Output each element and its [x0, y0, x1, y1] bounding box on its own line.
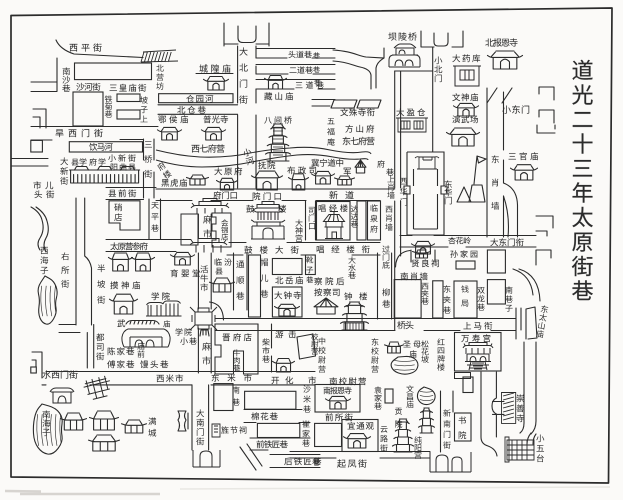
label 靴子巷 [306, 256, 313, 283]
label 旌节祠 [221, 426, 246, 433]
label 新道 [329, 191, 353, 199]
temple nw1 [109, 253, 133, 271]
label 坝陵桥 [388, 32, 416, 40]
street 旱西门街 lines [31, 127, 158, 141]
label 东夹巷 [443, 285, 451, 313]
label 晋府店 [223, 333, 252, 341]
street 北仓巷 lines [158, 105, 238, 115]
label 小东门 [502, 105, 529, 113]
label 大药库 [452, 54, 480, 62]
label 棉花巷 [251, 412, 277, 420]
block west of 饮马河 [31, 140, 43, 152]
building 大盈仓 [396, 118, 428, 132]
label 麻市 lower [202, 342, 211, 364]
box 宜通观 [342, 420, 378, 452]
label 东校尉营 [371, 338, 378, 372]
label 南海子 [42, 410, 50, 436]
label 冀宁道中 [311, 159, 343, 167]
label 活牛市 [200, 265, 208, 291]
label 通顺巷 [236, 261, 244, 300]
label 城隍庙 [199, 64, 230, 72]
label 庙 of 圣母庙 [409, 350, 416, 357]
label 军 [344, 168, 351, 175]
house 贤良祠 [413, 250, 431, 258]
monastery 小五台 cluster [505, 437, 534, 462]
street 桥头 corridor [215, 319, 516, 331]
block 临泉府 [368, 201, 381, 240]
block 坡子上 se [117, 110, 140, 119]
label 南巷子 [505, 286, 513, 311]
block 袁家巷东 [385, 389, 393, 403]
temple 大原府 [217, 178, 238, 190]
label 牛肉巷 [233, 349, 240, 371]
street 前铁匠巷 lines [250, 438, 310, 450]
block slanted east [357, 100, 381, 108]
label 水西门街 [42, 370, 77, 378]
hall 崇善寺 striped [502, 393, 516, 424]
label 袁家巷 [374, 386, 382, 409]
shadow below border [5, 491, 160, 494]
label 北报恩寺 [485, 38, 517, 46]
street 棉花巷 lines [244, 410, 310, 423]
label 大神宫 [295, 219, 302, 242]
street 大东门衔 corridor [400, 236, 536, 248]
block 孙家园 [456, 261, 475, 269]
label 桥头 [397, 321, 413, 329]
street corner sw row3 [32, 352, 42, 378]
gate arch 大南门 south [193, 450, 220, 467]
label 巷 [386, 168, 394, 175]
label 西肖墙 [385, 206, 392, 231]
box 大钟寺 [272, 287, 302, 317]
label 南校尉营 [330, 377, 366, 385]
box 南报恩寺 [315, 385, 360, 413]
temple 育婴堂 [171, 252, 195, 265]
tower 鼓楼 [251, 202, 285, 240]
label 坡子上 [140, 96, 147, 122]
label 钱局 [461, 285, 468, 306]
block 西夹巷东 [433, 281, 443, 318]
street 大北门街 west line [237, 46, 239, 188]
label 大南门街 [196, 409, 204, 445]
label 县前街 [108, 189, 136, 197]
gate 大北门 inner U [238, 26, 256, 43]
label 五福庵 [327, 118, 335, 146]
tower 纯阳宫塔 [419, 408, 435, 433]
block slanted 游击东 [297, 334, 316, 359]
building 武庙 arches [122, 329, 170, 347]
label 武 [117, 319, 125, 327]
label 司门口 [309, 207, 316, 230]
road diagonals to 小东门 [487, 88, 512, 103]
label 临泉府 [370, 204, 377, 232]
label 南沙巷 [62, 67, 70, 92]
label 松花坡 [421, 340, 428, 363]
tower 唱经楼 [324, 212, 345, 239]
tower 钟楼 [341, 302, 369, 330]
label 杏花岭 [448, 237, 471, 244]
label 孙家园 [450, 250, 477, 257]
gate 小北门 inner U [434, 33, 448, 46]
label 西七府营 [192, 144, 225, 152]
block r3 ne1 [487, 250, 505, 273]
label 傅家巷 [107, 360, 134, 368]
label 小河 [242, 147, 255, 165]
temple 文神庙 [454, 103, 479, 116]
street 大南门街 lines [192, 385, 209, 450]
label 大钟寺 [274, 291, 301, 299]
label 文殊寺衔 [340, 108, 374, 116]
street bend to 水西门 [59, 325, 94, 369]
label 红四牌楼 [437, 338, 444, 370]
label 三皇庙街 [110, 84, 147, 92]
label 都司街 [96, 333, 104, 360]
street 帽儿巷 lower lines [258, 324, 272, 372]
street 小北门街 connector [395, 70, 433, 72]
label 饮马河 [89, 143, 112, 151]
temple nw2 [132, 253, 155, 271]
street 新南门街 upper [520, 342, 536, 434]
street 三桥街 lines [144, 139, 155, 198]
block r3 ne2 [487, 280, 505, 304]
gate 新南门 [430, 452, 471, 472]
house 圣母庙 [385, 342, 404, 353]
label 馒头巷 [140, 360, 168, 368]
bracket block ne [536, 250, 551, 265]
label 前铁匠巷 [256, 440, 287, 448]
road curve branch [376, 58, 384, 88]
label 府学 [89, 158, 105, 165]
label 东七府营 [343, 137, 375, 145]
label 普光寺 [203, 115, 228, 123]
street west y163 [12, 159, 49, 167]
label 上肖墙 [387, 175, 394, 198]
temple 南报恩寺 [326, 396, 351, 409]
house 黑虎庙 [187, 175, 209, 185]
gate 大南门 west [178, 411, 188, 431]
label 崇善寺 [516, 394, 524, 422]
block 仓园河 [159, 94, 233, 103]
street 西平街 line [56, 40, 143, 58]
arcade 县学府学 row [70, 167, 140, 184]
label 天平巷 [151, 202, 159, 232]
bridge 坝陵桥 icon [389, 44, 420, 67]
label 东米市 [212, 374, 252, 382]
label 西华门 [400, 178, 407, 206]
diagonal street [240, 444, 262, 470]
label 黑虎庙 [161, 179, 187, 187]
label 南报恩寺 [323, 387, 351, 394]
label 沙河街 [76, 83, 100, 91]
tent 按察司 [314, 298, 338, 314]
shrine 旌节祠 icon [212, 424, 220, 437]
gateway 牌楼 tilted [82, 375, 113, 401]
house 临汾县 [210, 278, 235, 292]
label 满城 [148, 417, 156, 436]
tower 八间桥 rungs [273, 128, 283, 155]
label 右所街 [61, 252, 69, 287]
label 院门口 [253, 192, 281, 200]
label 起凤街 [337, 459, 366, 467]
label 巷 end1 [313, 52, 320, 58]
compound 皇城 [404, 152, 447, 235]
street 头道巷 lines [256, 49, 335, 59]
label 县学 [71, 158, 86, 165]
label 巷 sw [312, 458, 320, 465]
temple 藏山庙 [265, 76, 287, 90]
temple 抚院 [252, 171, 283, 190]
block 棉花巷 n [245, 391, 296, 409]
gate 大北门 [224, 23, 269, 46]
curved road 南巷子 [513, 269, 540, 301]
label 大新街 [60, 157, 68, 184]
label 府门口 [213, 191, 237, 199]
block 达达巷 east [357, 201, 366, 240]
street 司门口 lines [306, 201, 316, 240]
icon below 四牌楼 [200, 330, 209, 336]
gate 皇城牌楼 [415, 157, 439, 169]
label 达达巷 [351, 205, 358, 227]
block 北岳庙 [272, 259, 302, 275]
temple 杏花岭south [412, 241, 435, 254]
street 东肖墙 lines [487, 88, 504, 237]
street 肖墙 east line upper [400, 71, 402, 188]
label 帽儿巷 [260, 258, 268, 297]
label 鼓楼大街 [244, 246, 298, 254]
tent 中军 flag [355, 160, 366, 173]
label 鼓 [246, 205, 254, 213]
street 二道巷 lines [256, 65, 335, 75]
label 钟楼 [344, 292, 367, 300]
label 上马衔 [463, 322, 492, 330]
label 小北门 [434, 56, 442, 82]
temple 演武场 [447, 128, 480, 146]
label 三官庙 [509, 152, 538, 160]
label 纯阳宫 [414, 436, 421, 459]
label 府楼 [156, 161, 172, 180]
label 市儿 [33, 181, 53, 189]
gate 小东门 north bracket [537, 125, 555, 133]
crossing 四牌楼 [190, 307, 217, 330]
label 过门底 [382, 245, 389, 268]
label 文昌庙 [406, 385, 413, 408]
gate 学院 facade [146, 301, 182, 316]
blocks 麻市 flanks [181, 214, 198, 245]
tower 钟楼 base hatch [344, 323, 364, 330]
gate 小东门 brackets [539, 87, 554, 123]
label 东华门 [444, 180, 452, 204]
street 崇善寺 loop [481, 372, 497, 456]
label 会锦店 [221, 219, 228, 240]
label 万寿宫 [461, 334, 490, 342]
street 小北门街 east line [432, 47, 434, 152]
arc corner 麻市NE [210, 302, 224, 320]
street 县前街-府门口 corridor [106, 188, 156, 200]
street corner sw [33, 109, 46, 128]
temple sw2 [90, 411, 119, 430]
street 文殊寺街 lines [312, 100, 335, 107]
curve corner 过门底 [396, 251, 411, 268]
temple 宜通观 [344, 434, 371, 448]
wire 南沙巷 street line [56, 58, 58, 91]
label 三道巷 [296, 81, 324, 88]
temple 三官庙 [511, 165, 538, 180]
block 晋府店 [215, 324, 258, 374]
wall 贤良祠 [411, 250, 435, 262]
gate 大东门 brackets [536, 216, 553, 236]
block north of 沙河街 [75, 63, 152, 80]
temple 西肖墙北 [312, 171, 335, 184]
street 新南门街 lines [441, 391, 454, 452]
label 游击 [275, 330, 296, 338]
label 沙米巷 [303, 385, 311, 412]
title 道光二十三年太原街巷 [572, 60, 593, 300]
street 柳巷 lines [378, 253, 392, 319]
label 布政司 [287, 166, 316, 174]
street 天平巷 lines [149, 199, 161, 239]
street 鼓楼大街 corridor [106, 240, 380, 256]
gate 东太山庙 [516, 307, 537, 339]
label 藏山庙 [264, 92, 293, 100]
box 书院 [455, 413, 472, 441]
street to west border [31, 82, 57, 92]
label 北营坊 [156, 64, 164, 89]
gateway 牌楼 麻市南 [190, 239, 227, 253]
label 庙前 [137, 342, 144, 357]
label 小巷 [180, 337, 197, 344]
block slanted west [331, 100, 357, 108]
label 麻市 upper [203, 215, 212, 237]
street west vertical lines [76, 198, 92, 325]
label 开化 [271, 376, 293, 384]
tower 贡院塔 [393, 419, 414, 452]
label 小新街 [108, 154, 135, 161]
label 学院 [152, 292, 170, 300]
label 育婴堂 [171, 269, 200, 277]
street 小北门街 west line [394, 71, 396, 188]
label 三桥街 [144, 141, 152, 177]
label 头街 [34, 190, 54, 198]
block 帽儿巷西 [249, 255, 261, 317]
label 巷 end3 [314, 79, 321, 85]
house 西肖墙北2 [335, 176, 355, 185]
label 柳巷 [382, 288, 390, 307]
label 陈家巷 [108, 347, 135, 355]
label 宜通观 [347, 422, 373, 430]
block 靴子巷东 [306, 255, 316, 275]
label 圣母 [403, 341, 420, 348]
street 麻市 west line [198, 214, 211, 238]
label 文神庙 [452, 93, 478, 101]
label 西校尉营 partial [311, 333, 318, 354]
label 大东门衔 [490, 238, 523, 246]
label 崔家巷 [302, 420, 310, 446]
label 大原府 [214, 167, 242, 175]
label 临汾 [215, 258, 232, 265]
label 阳曲县 [111, 163, 136, 170]
street 府门口 corridor [156, 189, 395, 201]
label 铁菊巷 [105, 95, 113, 117]
block 钱局 [454, 281, 477, 318]
temple sw3 [122, 420, 147, 433]
label 前所街 [325, 413, 352, 421]
line under 城隍庙 [196, 73, 233, 75]
temple 城隍庙 [204, 77, 229, 91]
label 二道巷 [289, 66, 312, 73]
label 硝店 [114, 203, 122, 221]
temple 鄂侯庙 [158, 127, 182, 140]
label 庙 char 武庙 [163, 320, 170, 327]
road curve upper 三道巷-坝陵桥 [333, 48, 384, 58]
label 大北门街 [239, 47, 248, 103]
label 西平街 [70, 43, 102, 51]
label 中校尉营 [318, 337, 325, 372]
label 东太山庙 [536, 305, 549, 338]
label 演武场 [452, 115, 478, 123]
temple 北报恩寺 [488, 51, 523, 69]
roof 武庙 [126, 321, 159, 325]
blocks w row4 b [315, 423, 342, 446]
label 贡院 [395, 408, 402, 428]
building 大药库 [453, 66, 481, 86]
label 西米市 [157, 374, 184, 382]
label 新南门街 [443, 409, 451, 448]
block 棉花巷 s [257, 423, 299, 437]
street 肖墙 corridor [395, 201, 401, 330]
label 双龙巷 [477, 287, 485, 311]
triangle marker 东肖墙 [457, 187, 471, 202]
label 学院小 [175, 328, 191, 335]
stream upper 西海子 [31, 207, 48, 252]
label 唱经楼衔 [317, 245, 370, 253]
flag 东肖墙 [474, 156, 486, 184]
street 大北门街 east line [255, 46, 257, 188]
label 南肖墙 [401, 272, 428, 280]
street bracket 崇善寺 [493, 402, 505, 415]
label 北仓巷 [177, 106, 205, 114]
label 头道巷 [288, 51, 311, 58]
box 唱经楼 [317, 202, 351, 241]
street 米市 corridor [42, 372, 315, 385]
label 抚院 [258, 161, 275, 169]
label 巷 end2 [313, 66, 320, 72]
label 鄂侯庙 [158, 115, 188, 123]
block r4 ne [463, 377, 473, 393]
label 旱西门街 [55, 129, 102, 137]
gateway 牌楼 麻市北 [191, 199, 229, 214]
block 硝店 [109, 201, 140, 230]
label 大盈仓 [396, 108, 425, 116]
gate 小北门 outline [421, 31, 463, 47]
label 察院后 [314, 277, 344, 285]
gate 水西门 [50, 388, 74, 403]
temple 布政司 [289, 174, 309, 190]
label 西夹巷 [421, 283, 429, 305]
label 北岳庙 [275, 276, 303, 284]
temple 北营坊 hatched roof [141, 50, 178, 62]
river 小河 [156, 147, 371, 167]
road curve lower [333, 61, 371, 89]
label 贤良祠 [412, 259, 439, 267]
temple 大钟寺 [275, 304, 300, 316]
label 后铁匠巷 [284, 457, 321, 465]
label 书院 [459, 416, 467, 439]
temple sw1 [61, 413, 87, 430]
street 后铁匠巷 lines [270, 455, 320, 468]
street curve 三官庙南 [504, 183, 518, 237]
label 太原营参府 [110, 242, 147, 250]
label 仓园河 [186, 95, 213, 103]
